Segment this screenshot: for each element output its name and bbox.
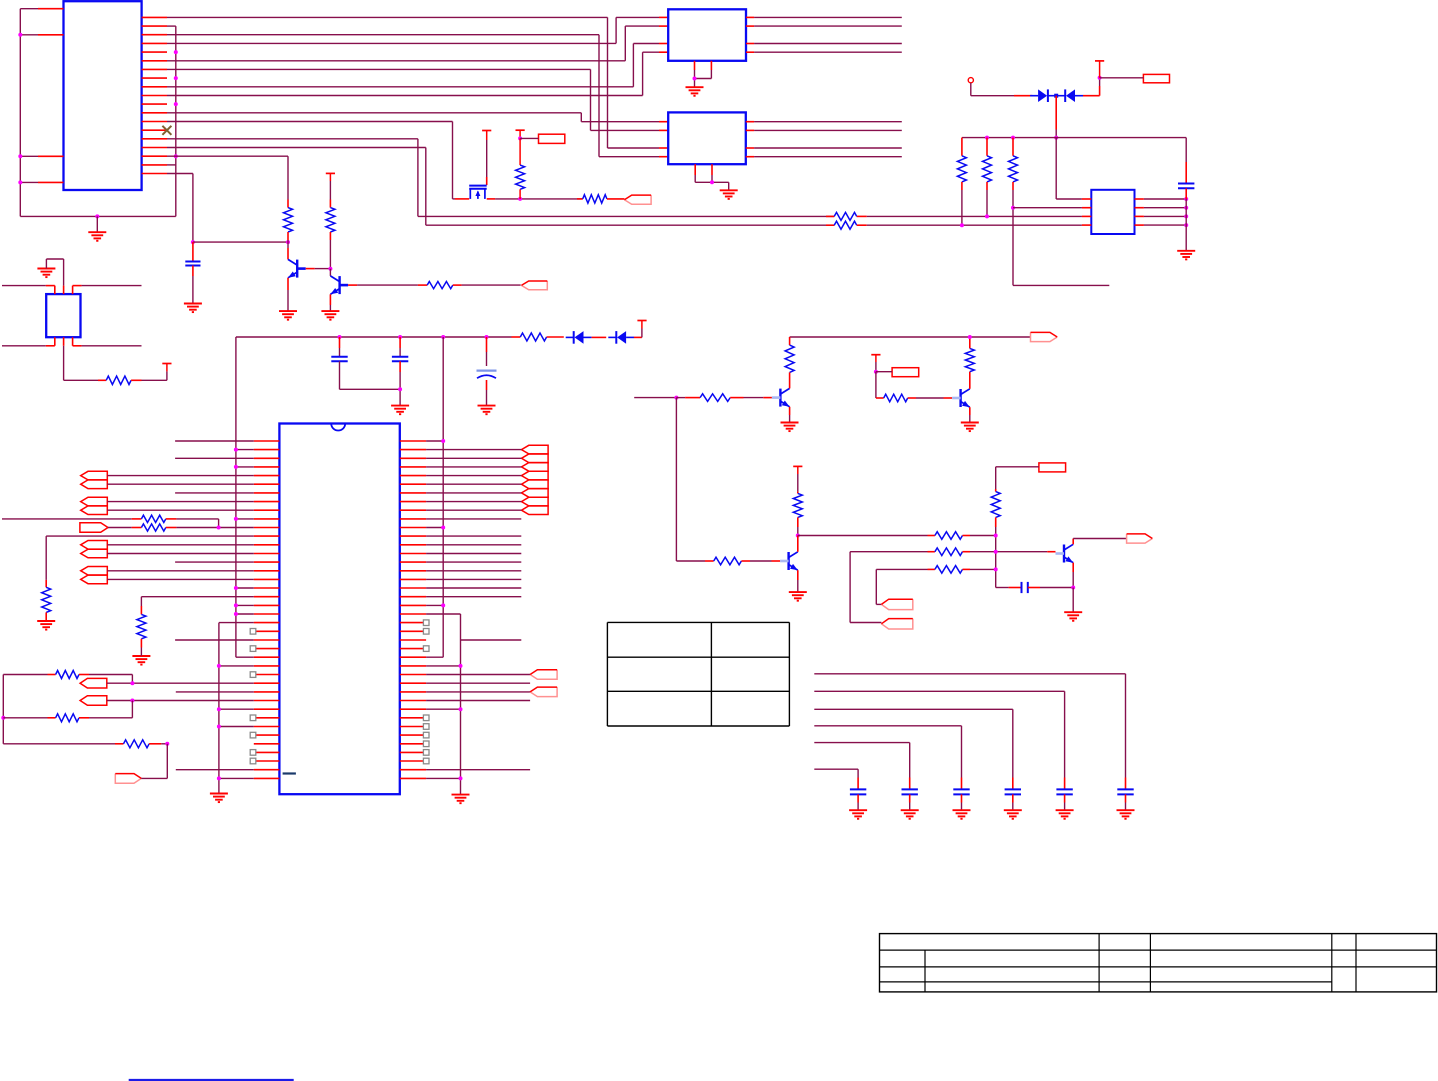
wire Q1 base — [306, 268, 315, 270]
U1 polarity dash — [283, 772, 296, 774]
node U4 r3 — [1184, 214, 1188, 218]
wire U1 R i38 — [426, 769, 530, 771]
wire row6 — [167, 60, 625, 62]
power T-bar M1 drain — [482, 130, 491, 132]
wire U1 L i0 — [175, 440, 254, 442]
wire row337 — [236, 336, 512, 338]
wire U1 bus-l i3 — [236, 466, 254, 468]
wire row3 — [167, 34, 599, 36]
node bus r8 — [174, 76, 178, 80]
wire corner up — [1099, 86, 1101, 96]
diode D3 — [573, 331, 575, 344]
wire X1 row top right — [73, 285, 82, 287]
ground U2 — [686, 86, 704, 88]
node ground tap — [95, 214, 99, 218]
node left pin3 — [18, 154, 22, 158]
bus GND vertical — [175, 26, 177, 216]
transistor Q4 — [959, 389, 961, 407]
wire U1 rail-l i33 — [219, 726, 254, 728]
node cap1 top — [191, 240, 195, 244]
wire pull3 down — [1012, 208, 1014, 286]
node row216 r2 — [985, 214, 989, 218]
rail gnd left — [218, 623, 220, 794]
connector J1 — [64, 1, 142, 190]
wire v633 row9-IC1p3 — [632, 44, 634, 87]
wire v616 row4-IC1p1 — [615, 17, 617, 43]
resistor RA — [56, 671, 79, 679]
capacitor C blk2 — [909, 778, 911, 790]
wire U1 rail-l i26 — [219, 665, 254, 667]
U1 left pin stubs — [254, 440, 280, 442]
resistor R pull1 — [961, 138, 963, 148]
wire q4 pwr stem — [875, 355, 877, 362]
wire R i18 gnd — [140, 648, 142, 657]
wire R xtal to pwr — [142, 379, 167, 381]
wire R osc2 row — [108, 527, 132, 529]
node q4 coll — [968, 335, 972, 339]
wire cap branch — [1185, 138, 1187, 162]
port PL4 — [81, 541, 108, 550]
wire U1 rail1 i10 — [426, 527, 443, 529]
resistor R i18 pd — [140, 597, 142, 606]
wire U1 R i29 — [426, 691, 530, 693]
transistor Q2 — [338, 276, 340, 294]
wire row551 q6 — [996, 551, 1048, 553]
wire D2 right — [1083, 95, 1100, 97]
wire LB4 link — [996, 466, 1039, 468]
wire ground rail bottom — [20, 215, 176, 217]
wire row9 — [167, 86, 633, 88]
ground R i11 — [37, 620, 55, 622]
power T-bar Q4 — [871, 354, 880, 356]
wire U1 bus-l i19 — [236, 604, 254, 606]
port Q2 net — [521, 281, 547, 290]
wire U1 rail1 i0 — [426, 440, 443, 442]
wire row551 left — [850, 551, 927, 553]
rail1 right — [442, 337, 444, 657]
port Q6 out — [1127, 534, 1153, 543]
wire q3 base2 — [730, 397, 743, 399]
node q6 emit — [1071, 586, 1075, 590]
node q3 base tap — [674, 396, 678, 400]
capacitor C blk3 — [961, 778, 963, 790]
connector circle port — [968, 78, 973, 83]
wire U1 bus-l i9 — [236, 518, 254, 520]
wire q5 coll link — [797, 536, 799, 552]
wire cap3 feed — [814, 725, 961, 727]
wire rail2 branch i23 — [461, 639, 522, 641]
wire X1 row bot right — [73, 345, 82, 347]
wire c_a bottom — [340, 388, 401, 390]
node R osc join — [217, 526, 221, 530]
wire PL8 — [141, 777, 167, 779]
resistor R row199 — [582, 198, 584, 200]
node RC — [165, 742, 169, 746]
port MOSFET out — [624, 195, 651, 204]
wire circle down — [970, 83, 972, 96]
wire PL7 row — [107, 700, 254, 702]
wire row7 — [167, 68, 591, 70]
power T-bar xtal — [162, 363, 171, 365]
wire PL2 b — [107, 509, 254, 511]
resistor RB — [56, 714, 79, 722]
wire v642 row10-IC1p4 — [642, 52, 644, 95]
ground C blk3 — [953, 809, 971, 811]
capacitor C blk6 — [1125, 778, 1127, 790]
resistor R Q5 coll — [797, 466, 799, 474]
wire U1 R i16 — [426, 578, 521, 580]
resistor R osc1 — [141, 515, 165, 522]
wire LB2 — [1100, 77, 1144, 79]
wire v590 row7-IC2p2 — [590, 69, 592, 130]
ground X1 top — [37, 268, 55, 270]
node row242 right — [286, 240, 290, 244]
wire row16 — [167, 147, 426, 149]
capacitor C blk5 — [1064, 778, 1066, 790]
ground Q3 — [781, 422, 799, 424]
port PR2 — [530, 687, 557, 697]
wire stack i1 — [426, 449, 521, 451]
node U1 bus-l i19 — [234, 603, 238, 607]
wire U1 R i12 — [426, 544, 521, 546]
wire q4 base drop — [875, 372, 877, 398]
port stack right — [522, 445, 549, 454]
wire q5 base2 — [741, 560, 750, 562]
node U1 rail2 i39 — [459, 776, 463, 780]
U3 bottom pin A — [694, 164, 696, 175]
rail2 right — [460, 614, 462, 795]
diode D2 — [1064, 89, 1066, 102]
wire X1 mid down — [63, 346, 65, 381]
X1 top pins — [54, 286, 56, 295]
resistor R Q6 coll — [995, 489, 997, 492]
transistor Q1 — [296, 260, 298, 278]
wire v236 top — [235, 337, 237, 657]
resistor R row216 — [826, 215, 834, 217]
wire U1 i18 — [141, 596, 253, 598]
ground R i18 — [132, 655, 150, 657]
node PL7 — [130, 699, 134, 703]
J1 right pin stubs — [142, 16, 167, 18]
label box LB2 — [1143, 74, 1169, 82]
wire U1 rail1 i19 — [426, 604, 443, 606]
node U1 rail-l i33 — [217, 725, 221, 729]
transistor Q6 — [1063, 545, 1065, 563]
capacitor C blk1 — [857, 778, 859, 790]
ground C polar — [478, 405, 496, 407]
U4 left pin stubs — [1082, 198, 1091, 200]
label box LB1 — [539, 134, 565, 143]
wire U1 R i28 — [426, 682, 530, 684]
node U2 gnd — [693, 77, 697, 81]
power T-bar Q5 — [793, 465, 802, 467]
capacitor C bypass — [1178, 183, 1194, 185]
wire row216 left — [418, 215, 834, 217]
port PL6 — [80, 678, 107, 688]
wire U1 i21 — [219, 622, 254, 624]
wire q5 emit — [797, 570, 799, 580]
wire U1 R i30 — [426, 700, 530, 702]
wire U1 R i18 — [426, 596, 521, 598]
wire U1 L i2 — [175, 457, 254, 459]
wire row535 r — [963, 535, 971, 537]
port Q3Q4 out — [1031, 332, 1058, 341]
port PL3 — [80, 523, 108, 533]
resistor R Q3 base — [700, 394, 730, 402]
label box LB3 — [892, 368, 919, 377]
capacitor C q6 — [1021, 582, 1023, 593]
wire U1 R i14 — [426, 561, 521, 563]
node U1 rail1 i10 — [441, 526, 445, 530]
J1 left pin 1 — [20, 8, 38, 10]
wire U1 bus-l i17 — [236, 587, 254, 589]
ground C osc — [184, 303, 202, 305]
power T-bar Q2 — [326, 172, 335, 174]
node M1 out — [518, 197, 522, 201]
wire q4 base2 — [908, 397, 916, 399]
wire U1 R i13 — [426, 553, 521, 555]
resistor RC — [124, 740, 150, 748]
power T-bar top right — [1095, 60, 1104, 62]
node U1 rail-l i31 — [217, 707, 221, 711]
wire row4 — [167, 42, 616, 44]
wire pa drop — [875, 569, 877, 604]
node U1 rail1 i0 — [441, 439, 445, 443]
U2 right pins — [746, 16, 754, 18]
node U1 rail-l i39 — [217, 776, 221, 780]
wire row337 q3 — [790, 336, 1031, 338]
wire mosfet src — [453, 198, 456, 200]
node left pin2 — [18, 33, 22, 37]
wire U1 R i15 — [426, 570, 521, 572]
wire row216 right — [867, 215, 1082, 217]
capacitor C osc b — [399, 337, 401, 348]
resistor R row337 — [520, 333, 546, 341]
wire bus2 down — [192, 174, 194, 243]
wire row19 — [167, 173, 193, 175]
wire left vertical — [19, 9, 21, 217]
wire X1 gnd link — [45, 259, 47, 269]
ground C blk5 — [1056, 809, 1074, 811]
wire U1 bus-l i20 — [236, 613, 254, 615]
wire Q1 coll — [287, 246, 289, 248]
wire R osc1 right — [166, 518, 177, 520]
node pull3 IC4p2 — [1011, 206, 1015, 210]
U1 right pin stubs — [400, 440, 426, 442]
node c_a — [338, 335, 342, 339]
node U4 r2 — [1184, 206, 1188, 210]
wire row17 — [167, 155, 288, 157]
wire r17 drop — [287, 156, 289, 199]
node q4 base tap — [874, 370, 878, 374]
wire RA right — [79, 674, 89, 676]
IC U2 — [668, 9, 746, 61]
ground C blk4 — [1004, 809, 1022, 811]
node U1 rail-l i26 — [217, 664, 221, 668]
resistor R i11 pd — [45, 536, 47, 580]
wire U1 L i6 — [175, 492, 254, 494]
wire stack i7 — [426, 501, 521, 503]
wire stack i3 — [426, 466, 521, 468]
wire Q2 emit — [329, 294, 331, 305]
port PL7 — [80, 696, 107, 706]
wire D4 right — [634, 336, 642, 338]
ground Q2 — [321, 310, 339, 312]
port PB — [881, 619, 912, 629]
node c_c — [485, 335, 489, 339]
wire row398 left — [634, 397, 676, 399]
wire cap1 feed — [814, 768, 858, 770]
ground C blk6 — [1117, 809, 1135, 811]
wire row242 — [193, 241, 288, 243]
IC U1 — [279, 424, 399, 795]
wire PL4 b — [107, 553, 254, 555]
wire q6 emit — [1072, 563, 1074, 572]
wire U1 R i20 — [426, 613, 460, 615]
wire row18 stub — [167, 164, 176, 166]
wire U1 L i29 — [176, 691, 254, 693]
node c_b — [398, 335, 402, 339]
resistor R Q2 coll — [326, 208, 335, 232]
wire row569 left — [876, 568, 927, 570]
wire PL2 a — [107, 501, 254, 503]
wire drain vertical — [486, 131, 488, 141]
resistor R row569 — [935, 566, 963, 574]
port PL8 — [115, 774, 141, 784]
wire X1 row top left — [2, 285, 46, 287]
wire row15 — [167, 138, 418, 140]
node bus r17 — [174, 154, 178, 158]
node pwr tap — [1098, 76, 1102, 80]
power T-bar D4 — [637, 320, 646, 322]
node U1 rail1 i19 — [441, 603, 445, 607]
port PA — [881, 599, 912, 609]
node U1 bus-l i1 — [234, 448, 238, 452]
ground C blk2 — [901, 809, 919, 811]
wire cap q6 left — [996, 587, 1009, 589]
node U1 bus-l i17 — [234, 586, 238, 590]
wire U1 R i17 — [426, 587, 521, 589]
wire cap5 feed — [814, 690, 1064, 692]
port PL1 — [81, 471, 108, 480]
wire RA row — [3, 674, 47, 676]
J1 left pin 2 — [20, 34, 38, 36]
table notes — [607, 621, 789, 623]
resistor R Q1 coll — [284, 208, 293, 232]
wire U3 gnd — [695, 181, 729, 183]
wire q3 base — [676, 397, 685, 399]
wire cap2 feed — [814, 742, 909, 744]
node far left RB — [1, 716, 5, 720]
wire PL1 b — [107, 483, 254, 485]
wire D3-D4 — [592, 336, 607, 338]
wire U1 L i14 — [175, 561, 254, 563]
transistor M1 mosfet — [469, 185, 487, 187]
wire stack i2 — [426, 457, 521, 459]
wire U1 rail2 i39 — [426, 777, 460, 779]
wire pb drop — [849, 552, 851, 623]
wire cap to gnd — [1185, 188, 1187, 199]
wire Q2 base right — [453, 284, 462, 286]
wire cap4 feed — [814, 708, 1013, 710]
resistor R Q4 base — [884, 394, 908, 402]
node q5 coll — [796, 534, 800, 538]
wire U4p2 left — [1013, 207, 1082, 209]
power T-bar R pullup — [516, 129, 525, 131]
wire jog row12-IC2p1 — [580, 113, 582, 122]
capacitor C osc a — [339, 337, 341, 348]
node v443 — [441, 335, 445, 339]
node vbus r3 — [1011, 136, 1015, 140]
wire Q1 emit — [287, 278, 289, 290]
wire q6 gnd — [1072, 588, 1074, 613]
wire PL6 row — [107, 682, 254, 684]
resistor R row535 — [935, 532, 963, 540]
wire v599 row3-IC2p4 — [598, 35, 600, 157]
wire row12 — [167, 112, 581, 114]
resistor R Q5 base — [714, 557, 742, 565]
node c_b bottom — [398, 387, 402, 391]
node U1 rail2 i31 — [459, 707, 463, 711]
resistor R osc2 — [141, 524, 165, 531]
U3 bottom pin B — [711, 164, 713, 175]
resistor R pullup — [519, 138, 521, 165]
node x995 c — [994, 567, 998, 571]
link underline — [129, 1079, 294, 1081]
wire RB right — [79, 717, 89, 719]
wire PL5 b — [107, 578, 254, 580]
wire X1 row bot left — [2, 345, 46, 347]
wire stack i5 — [426, 483, 521, 485]
wire v426 to row225 — [425, 148, 427, 226]
wire row225 left — [426, 224, 834, 226]
wire U1 rail2 i31 — [426, 708, 460, 710]
wire row13 — [167, 121, 453, 123]
table title block — [880, 934, 1437, 992]
crystal X1 — [46, 294, 80, 337]
resistor R row551 — [935, 548, 963, 556]
IC U4 — [1091, 190, 1134, 234]
X1 bottom pins — [54, 337, 56, 346]
node left pin4 — [18, 180, 22, 184]
node pullup — [518, 136, 522, 140]
wire q4 emit — [969, 407, 971, 415]
wire Q2 base — [348, 284, 357, 286]
wire ground stem — [96, 216, 98, 232]
ground Q6 — [1064, 611, 1082, 613]
U2 bottom pin A — [694, 61, 696, 70]
diode D1 — [1047, 89, 1049, 102]
wire U1 bus-l i1 — [236, 449, 254, 451]
port PL5 — [81, 567, 108, 576]
wire row13 drop — [452, 122, 454, 199]
wire stack i6 — [426, 492, 521, 494]
wire v418 to row216 — [417, 139, 419, 217]
wire RC down — [166, 744, 168, 779]
wire row551 r — [963, 551, 971, 553]
wire U1 R i9 — [426, 518, 521, 520]
node vbus r2 — [985, 136, 989, 140]
resistor R Q2 base — [427, 282, 453, 289]
wire row10 — [167, 95, 643, 97]
wire mosfet out — [487, 198, 495, 200]
label box LB4 — [1039, 463, 1066, 472]
wire U1 rail-l i39 — [219, 777, 254, 779]
wire PL4 a — [107, 544, 254, 546]
ground Q1 — [279, 310, 297, 312]
U4 right pins — [1135, 198, 1144, 200]
capacitor C osc — [192, 242, 194, 261]
